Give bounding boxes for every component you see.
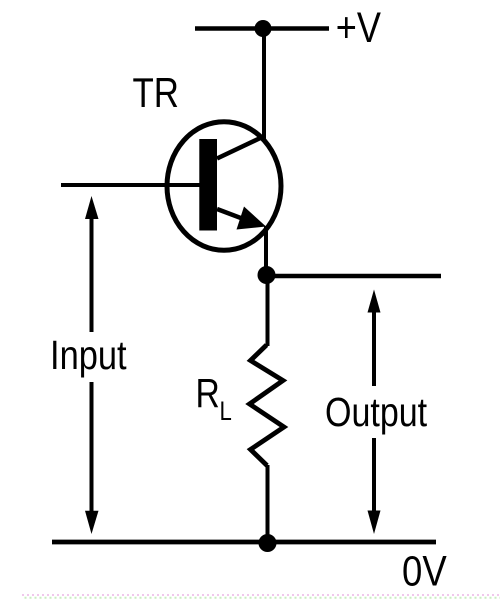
wire emitter to output junction — [264, 226, 268, 275]
wire ground rail — [52, 540, 436, 545]
resistor RL zigzag — [250, 345, 285, 466]
node output junction — [258, 266, 276, 284]
svg-text:+V: +V — [336, 4, 382, 52]
svg-text:Output: Output — [325, 389, 428, 435]
label Output — [322, 386, 430, 438]
node ground junction — [259, 534, 277, 552]
svg-text:L: L — [220, 397, 232, 427]
label RL — [196, 370, 232, 427]
wire resistor to ground — [266, 465, 270, 542]
transistor TR — [167, 122, 281, 251]
node supply junction — [255, 20, 272, 37]
label Input — [48, 332, 130, 382]
output measurement arrow — [368, 290, 381, 535]
svg-text:R: R — [196, 370, 220, 416]
wire junction to resistor — [266, 275, 270, 346]
svg-text:TR: TR — [133, 70, 179, 117]
svg-text:Input: Input — [50, 333, 127, 378]
input measurement arrow — [85, 196, 99, 534]
svg-text:0V: 0V — [402, 548, 447, 595]
wire base lead — [61, 183, 200, 187]
wire top supply rail — [195, 26, 329, 31]
wire collector vertical — [262, 29, 266, 141]
wire output line — [266, 274, 441, 279]
